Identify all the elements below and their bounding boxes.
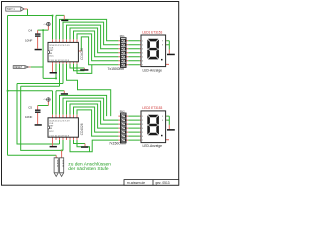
svg-text:RESET: RESET — [14, 66, 23, 69]
svg-text:10NF: 10NF — [25, 115, 33, 119]
svg-text:TAKT 1: TAKT 1 — [7, 8, 16, 11]
svg-text:RN2: RN2 — [120, 110, 125, 113]
svg-text:UCC: UCC — [49, 55, 54, 57]
svg-text:RN1: RN1 — [120, 35, 125, 38]
svg-text:der nächsten Stufe: der nächsten Stufe — [68, 166, 109, 172]
svg-text:gez. 0513: gez. 0513 — [156, 181, 170, 185]
svg-text:10NF: 10NF — [25, 39, 33, 43]
svg-text:C5: C5 — [28, 105, 32, 109]
svg-text:CD4026: CD4026 — [80, 123, 84, 135]
svg-text:2 CO 10 12 13 9 11 8: 2 CO 10 12 13 9 11 8 — [49, 135, 70, 137]
svg-text:rn-wissen.de: rn-wissen.de — [127, 181, 145, 185]
svg-text:7x150Ohm: 7x150Ohm — [109, 141, 126, 145]
svg-text:LED2 ET3153: LED2 ET3153 — [142, 106, 162, 110]
svg-text:LED1 ET3153: LED1 ET3153 — [142, 31, 162, 35]
svg-text:LED-Anzeige: LED-Anzeige — [143, 144, 163, 148]
svg-text:C4: C4 — [28, 29, 32, 33]
svg-text:zu n.St: zu n.St — [62, 160, 65, 167]
svg-text:7x150Ohm: 7x150Ohm — [108, 67, 125, 71]
svg-text:2 CO 10 12 13 9 11 8: 2 CO 10 12 13 9 11 8 — [49, 60, 70, 62]
svg-text:LED-Anzeige: LED-Anzeige — [143, 69, 163, 73]
svg-text:□CLK 15 1 5 2 6 7 4 9: □CLK 15 1 5 2 6 7 4 9 — [49, 119, 70, 122]
svg-text:CD4026: CD4026 — [80, 48, 84, 60]
svg-text:UCC: UCC — [49, 131, 54, 133]
svg-text:□CLK 15 1 5 2 6 7 4 9: □CLK 15 1 5 2 6 7 4 9 — [49, 44, 70, 47]
